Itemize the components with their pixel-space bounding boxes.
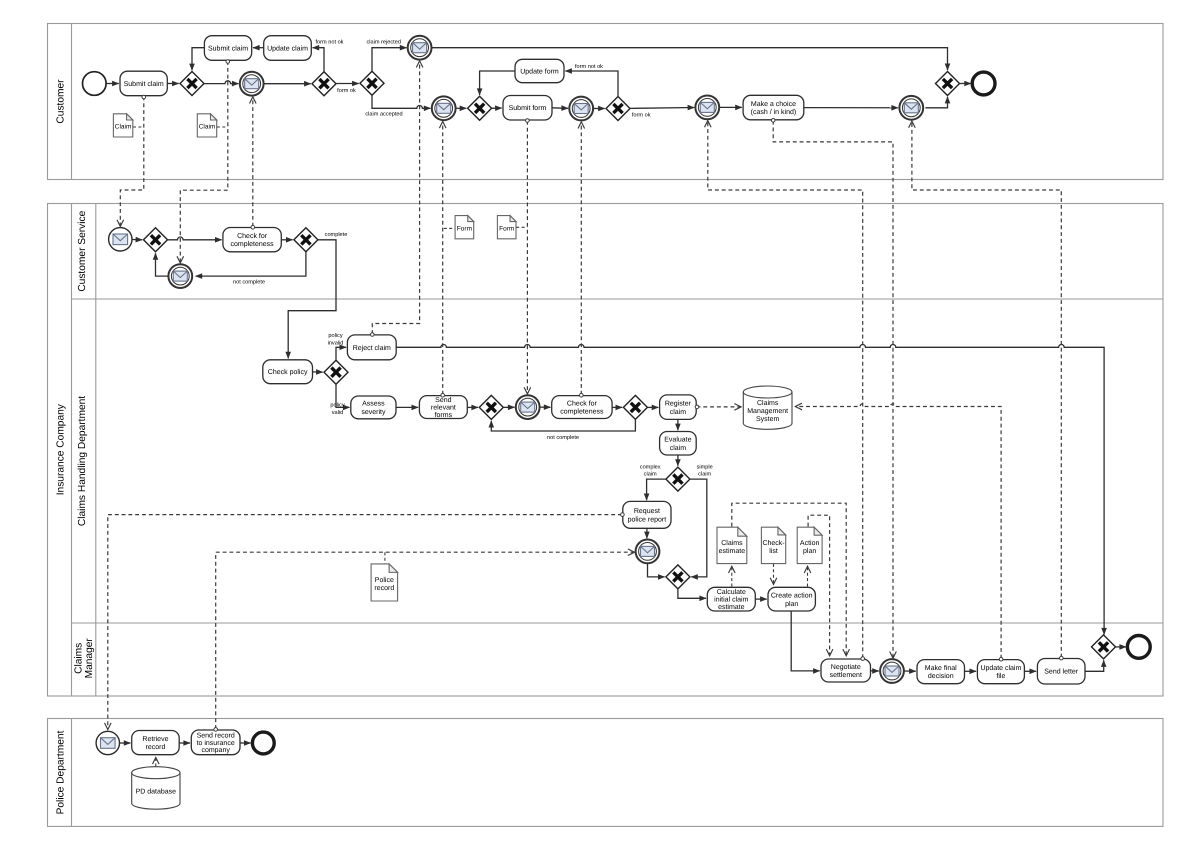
pool Police Department [48,719,1164,827]
svg-text:Request: Request [634,508,660,515]
wire Request police report to police record event [646,528,648,538]
wire start to Submit claim [106,83,118,85]
svg-text:form not ok: form not ok [316,39,344,46]
svg-text:Claims: Claims [757,399,779,407]
association PD database to Retrieve record [155,758,157,767]
wire CS message event to merge [156,253,169,276]
svg-text:Check policy: Check policy [268,368,308,376]
svg-text:Create action: Create action [771,592,813,600]
message event form submission [516,395,540,419]
data object Claim (1) [113,114,132,137]
wire claim accepted to X4 [456,107,467,109]
gateway policy check [324,360,348,384]
wire Make final decision to Update claim file [965,670,977,672]
message event form received [569,97,593,121]
svg-text:Insurance Company: Insurance Company [56,403,67,495]
label policy valid [330,401,345,415]
task Send record to insurance company [191,730,240,755]
data object Action plan [797,527,822,563]
svg-text:list: list [769,547,778,555]
svg-text:Reject claim: Reject claim [353,344,391,352]
wire CS not complete to message event [196,252,306,276]
message start event (Police) [96,731,119,754]
message flow Submit claim to CS start [120,95,145,226]
svg-text:Claims: Claims [74,643,85,674]
svg-text:initial claim: initial claim [714,596,748,604]
wire Check completeness CHD to complete gateway [612,406,622,408]
gateway CHD merge2 [666,565,690,589]
svg-text:record: record [146,743,166,751]
svg-text:Send record: Send record [197,731,235,739]
task Evaluate claim [660,432,697,456]
data store Claims Management System [743,386,792,429]
svg-text:Claim: Claim [115,124,132,131]
task Submit form [503,96,552,121]
label not complete (CS) [233,278,265,285]
message event not complete (CS) [168,264,192,288]
svg-text:System: System [756,416,780,423]
association Calculate to Claims estimate [731,567,733,587]
wire Submit claim to X1 [167,83,178,85]
task Reject claim [347,335,396,360]
svg-text:not complete: not complete [233,278,265,285]
gateway CHD merge1 [479,395,503,419]
message flow Update claim file to Claims Management System [796,404,1003,661]
message event settlement response [880,659,904,683]
task Make a choice [743,95,804,120]
message flow Submit claim2 to CS not-complete event [180,60,229,263]
svg-text:Submit form: Submit form [509,104,547,112]
task Update form [515,59,564,82]
gateway CS merge [144,228,168,252]
wire Calculate to Create action plan [755,598,766,600]
message event payment notice [899,96,923,120]
gateway X6 end merge [936,72,960,96]
svg-text:PD database: PD database [136,787,177,795]
wire X3 to claim accepted event [372,95,430,108]
wire X4 to Submit form [492,107,502,109]
message flow Negotiate settlement to choice request event [708,121,865,661]
svg-text:Send letter: Send letter [1044,668,1079,676]
wire policy invalid to Reject claim [336,347,346,360]
gateway CHD complete check [623,395,647,419]
task Check for completeness (CS) [223,228,281,252]
label form ok (2) [632,111,651,118]
svg-text:Management: Management [747,408,788,415]
svg-text:claim: claim [670,408,687,416]
wire Submit claim2 to X1 [192,48,204,70]
svg-text:claim accepted: claim accepted [365,111,402,118]
svg-text:estimate: estimate [719,547,746,555]
svg-text:form not ok: form not ok [575,63,603,70]
wire simple claim to merge2 [690,479,707,577]
svg-text:Claims: Claims [721,539,743,547]
wire Update claim to Submit claim2 [253,47,264,49]
task Submit claim (1) [120,71,167,96]
message flow Send record to police record event [214,552,634,731]
association Create action plan to Action plan doc [807,567,809,587]
wire X3 to claim rejected event [372,48,406,71]
message event choice request [695,96,719,120]
wire complex claim to Request police report [647,479,666,500]
message event claim rejected [408,36,432,60]
wire Reject claim to CM gateway [396,344,1104,634]
association Police record doc [384,552,386,563]
data object Form (2) [497,216,516,239]
message flow Reject claim to claim rejected event [371,61,420,336]
svg-text:claim: claim [644,471,657,478]
task Retrieve record [132,731,180,755]
wire Check completeness to CS gateway [281,239,292,241]
wire X1 to message event [204,81,238,84]
message flow CS completeness to claim submitted event [251,97,255,229]
message event claim submitted [240,72,264,96]
gateway X4 merge [468,96,492,120]
svg-text:form ok: form ok [632,111,651,118]
svg-text:Make a choice: Make a choice [751,100,796,108]
wire CS start to CS merge [132,239,142,241]
wire payment notice to X6 [925,97,947,108]
svg-text:valid: valid [332,409,344,416]
association Form doc 1 [444,227,455,229]
svg-text:completeness: completeness [560,408,604,416]
wire Send letter to CM gateway [1085,660,1104,671]
end event (Claims Manager) [1127,636,1150,659]
task Make final decision [917,660,965,684]
wire Update claim file to Send letter [1024,670,1036,672]
message flow CHD completeness to form received event [580,122,584,397]
pool Customer [48,24,1164,180]
svg-text:Form: Form [457,226,472,233]
wire Create action plan to Negotiate settlement [791,611,820,671]
task Update claim file [977,660,1024,684]
task Create action plan [768,587,815,611]
wire message event to X2 [264,83,311,85]
wire not complete loop CHD [491,420,635,431]
wire police record event to merge2 [648,563,665,577]
association Claim doc 2 [217,126,228,128]
svg-text:claim: claim [670,444,687,452]
wire Retrieve record to Send record [179,742,190,744]
label simple claim [697,463,713,477]
svg-text:Claims Handling Department: Claims Handling Department [77,396,88,526]
task Submit claim (2) [204,36,251,61]
wire CS merge to Check completeness [168,237,222,240]
wire X5 to choice request form ok [630,107,694,110]
label form not ok (2) [575,63,603,70]
start event (Customer) [83,72,107,96]
message flow Action plan doc to Negotiate settlement [808,515,830,655]
task Send relevant forms [419,396,467,419]
association Check-list to Create action plan [773,564,775,584]
svg-text:Negotiate: Negotiate [831,663,861,671]
task Assess severity [351,396,396,419]
svg-text:Submit claim: Submit claim [208,45,248,53]
svg-text:file: file [996,672,1005,680]
svg-text:policy: policy [330,401,345,408]
data object Claims estimate [717,527,747,563]
wire Evaluate claim to complexity gateway [677,455,679,466]
svg-text:Check-: Check- [762,539,785,547]
message flow Register claim to Claims Management System [695,405,741,409]
svg-text:Action: Action [800,539,820,547]
svg-text:policy: policy [328,332,343,339]
svg-text:Form: Form [499,226,514,233]
svg-text:decision: decision [928,672,954,680]
label form not ok (1) [316,39,344,46]
svg-text:Update form: Update form [520,68,559,76]
svg-text:severity: severity [361,408,386,416]
gateway X5 form ok check [606,97,630,121]
svg-text:Register: Register [665,399,692,407]
label not complete (CHD) [547,434,579,441]
task Check policy [263,360,313,384]
label complete [325,231,348,238]
wire Assess severity to Send relevant forms [396,406,418,408]
wire complete gateway to Register claim [648,406,659,408]
svg-text:Claim: Claim [199,124,216,131]
svg-text:police report: police report [628,516,667,524]
data object Claim (2) [197,114,216,137]
svg-text:settlement: settlement [830,671,862,679]
svg-text:Police: Police [375,576,394,584]
pool Insurance Company [48,204,1164,697]
wire choice request to Make a choice [719,106,741,108]
wire X5 to Update form form not ok [565,71,618,96]
association Form doc 2 [516,226,527,228]
message event police record received [636,540,660,564]
wire form received to X5 [593,108,604,110]
wire Update form to X4 [480,71,515,95]
data object Form (1) [455,216,474,239]
wire policy valid to Assess severity [336,384,350,407]
wire Send record to police end [240,742,251,744]
wire Send relevant forms to merge1 [467,406,478,408]
svg-text:estimate: estimate [718,603,745,611]
svg-text:Customer: Customer [56,79,67,124]
message flow Send relevant forms to claim accepted event [441,122,445,397]
message flow Send letter to payment notice event [912,121,1063,660]
message start event (Customer Service) [109,228,132,251]
task Update claim [264,36,312,61]
svg-text:company: company [201,747,230,754]
label complex claim [640,463,661,477]
svg-text:Retrieve: Retrieve [142,735,168,743]
label claim accepted [365,111,402,118]
message flow Request police report to police start [108,513,624,730]
svg-text:Check for: Check for [237,232,268,240]
data object Check-list [761,527,785,563]
message flow Make a choice to settlement response event [771,119,893,659]
svg-text:Update claim: Update claim [267,45,308,53]
gateway X1 (Customer) [180,72,204,96]
svg-text:Manager: Manager [84,638,95,679]
svg-text:Submit claim: Submit claim [124,80,164,88]
svg-text:claim: claim [698,471,711,478]
svg-text:complex: complex [640,463,661,470]
wire claim rejected long line to X6 [432,48,948,70]
svg-text:to insurance: to insurance [197,739,235,747]
svg-text:Make final: Make final [925,664,957,672]
svg-text:Calculate: Calculate [717,588,746,596]
task Send letter [1037,659,1085,685]
svg-text:Police Department: Police Department [56,730,67,814]
wire Make a choice to payment notice [804,107,898,109]
svg-text:Check for: Check for [567,399,598,407]
svg-text:plan: plan [785,600,798,608]
svg-text:(cash / in kind): (cash / in kind) [751,108,797,116]
wire merge1 to form submission event [504,406,515,408]
message event claim accepted [432,96,456,120]
task Register claim [660,395,697,420]
label claim rejected [366,39,401,46]
gateway X3 claim decision [360,71,384,95]
data object Police record [371,564,398,601]
svg-text:Update claim: Update claim [980,664,1021,672]
gateway X2 form check [312,72,336,96]
wire Check policy to policy gateway [313,371,323,373]
svg-text:Evaluate: Evaluate [664,436,691,444]
svg-text:Assess: Assess [362,401,385,408]
svg-text:Customer Service: Customer Service [77,210,88,291]
svg-text:relevant: relevant [431,404,456,412]
svg-text:not complete: not complete [547,434,579,441]
wire form submission to Check completeness CHD [540,406,551,408]
wire settlement event to Make final decision [904,670,916,672]
svg-text:record: record [374,584,394,592]
svg-text:plan: plan [803,547,816,555]
wire X2 to X3 form ok [336,83,359,85]
label form ok (1) [337,87,356,94]
gateway CM merge [1092,635,1116,659]
wire police start to Retrieve record [120,742,131,744]
task Calculate initial claim estimate [707,587,755,611]
end event (Customer) [972,72,995,95]
message flow Submit form to form submission event [526,119,530,394]
task Check for completeness (CHD) [552,396,612,419]
svg-text:completeness: completeness [230,240,274,248]
task Request police report [623,501,671,528]
gateway CS complete check [294,228,318,252]
wire Submit form to form received [552,107,568,110]
data store PD database [132,767,180,810]
task Negotiate settlement [821,659,871,682]
wire CS complete to Check policy [288,240,336,359]
svg-text:simple: simple [697,463,713,470]
wire X6 to end event [960,83,971,85]
wire X2 to Update claim form not ok [313,48,324,72]
svg-text:invalid: invalid [328,339,344,346]
wire Negotiate to settlement event [871,670,879,672]
message flow Claims estimate doc to Negotiate settlement [732,503,846,655]
wire CM gateway to end event [1116,646,1126,648]
association Claim doc 1 [133,126,144,128]
gateway claim complexity [666,467,690,491]
wire merge2 to Calculate estimate [678,589,706,598]
svg-text:claim rejected: claim rejected [366,39,401,46]
label policy invalid [328,332,344,346]
wire Register claim to Evaluate claim [677,419,679,430]
svg-text:form ok: form ok [337,87,356,94]
svg-text:forms: forms [435,411,453,419]
end event (Police) [252,732,274,754]
svg-text:complete: complete [325,231,348,238]
